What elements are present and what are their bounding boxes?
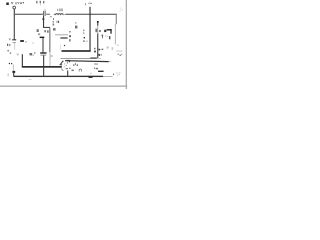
blob plate above ground rail — [12, 71, 15, 73]
label c rows right of V2 — [98, 49, 102, 56]
faint dot — [33, 42, 34, 44]
component bracket vertical — [110, 29, 111, 34]
gray line E — [55, 34, 68, 35]
ground bulge on rail — [89, 76, 93, 78]
label r. marks — [94, 63, 98, 69]
wire main vertical x90 — [89, 7, 90, 51]
ground rail dark — [13, 76, 103, 77]
label u. left of C2 — [30, 53, 33, 55]
blob below rail area — [72, 70, 74, 72]
wire line D thick — [62, 50, 91, 52]
faint marks bottom left — [7, 73, 9, 76]
label +V VIN — [11, 2, 24, 5]
V2 top blob — [97, 21, 99, 23]
wire line B output mid — [65, 60, 109, 63]
two dots — [9, 63, 10, 64]
wire bus A corner up — [22, 54, 23, 67]
diagonal mark — [61, 69, 63, 71]
label blob left — [20, 40, 24, 42]
capacitor C2 top T bar — [40, 37, 45, 39]
wire C2 vertical — [43, 38, 44, 52]
label dots right of E — [69, 31, 71, 42]
wire vertical faint continuation — [49, 52, 52, 66]
junction dot on bus — [89, 13, 91, 15]
wire top bus segment 1 — [14, 14, 43, 15]
cluster near switch dots — [64, 62, 68, 67]
faint x scribble right — [116, 72, 120, 76]
label x left of C1 — [9, 38, 11, 40]
label tick above cap plate — [44, 9, 47, 10]
label 5 left of V2 — [94, 48, 95, 50]
faint label below vertical — [50, 55, 53, 57]
label plus marks — [7, 50, 11, 54]
wire stub to rail — [67, 71, 68, 76]
label n above rail — [79, 69, 81, 71]
capacitor C2 plate2 — [41, 54, 47, 57]
wire line C dark segment — [90, 58, 97, 59]
wire corner down at right end of bus — [116, 14, 117, 25]
wire from terminal down — [14, 9, 15, 17]
component bar below — [109, 36, 110, 39]
label 1 ~ above junction — [84, 3, 87, 5]
switch contact hook — [66, 60, 69, 61]
bus A horizontal thick — [22, 66, 62, 68]
capacitor C1 plate bottom gray — [13, 42, 16, 43]
inductor L bumps — [56, 14, 64, 15]
ground rail gray tail — [103, 76, 113, 77]
wire faint lower left — [12, 64, 15, 71]
wire blob below cap — [42, 18, 44, 20]
faint mark right of blob — [25, 41, 27, 43]
wire stub before inductor — [54, 13, 56, 16]
wire faint below C1 — [13, 43, 16, 49]
node VIN terminal square dot — [6, 3, 9, 6]
capacitor C1 plate top — [12, 39, 16, 40]
label m right of V2 — [102, 49, 103, 50]
wire fading vertical right — [115, 24, 116, 45]
short line above rail right — [98, 71, 104, 72]
label M 1-1 below line B — [73, 63, 78, 66]
label 100 above inductor — [57, 9, 63, 11]
label x mark — [38, 33, 40, 35]
marks near transistor base — [84, 37, 85, 38]
terminal circle VIN — [13, 6, 16, 9]
faint mark above bus A corner — [17, 53, 19, 55]
label colon dots — [83, 30, 84, 32]
wire V2 vertical — [97, 21, 98, 26]
faint ground triangle — [90, 73, 92, 75]
faint vertical to line D — [59, 44, 62, 50]
component bracket horizontal — [107, 29, 112, 30]
border frame bottom — [0, 86, 127, 87]
wire top bus segment 3 — [66, 14, 117, 15]
capacitor C in series on bus: plate left — [42, 11, 45, 16]
label above capacitor (111) — [36, 1, 44, 5]
wire below series cap down — [43, 16, 44, 28]
border frame right — [126, 0, 127, 89]
wire line C gray feedback — [61, 57, 91, 60]
label xy marks top right — [118, 54, 123, 56]
wire faint link inductor to bus — [63, 13, 65, 16]
wire line C faint extension — [97, 57, 101, 60]
faint mark above bottom border — [29, 78, 32, 81]
node dot below bus — [50, 16, 51, 17]
wire vertical down to bus A — [48, 28, 51, 53]
switch lever — [60, 62, 63, 65]
wire corner to right — [43, 27, 50, 28]
dot above line D — [64, 45, 65, 46]
labels around V2 — [95, 29, 108, 39]
label VE below left — [7, 44, 11, 47]
label cluster under cap — [37, 29, 49, 33]
capacitor C2 plate1 — [40, 52, 46, 53]
wire bus segment 2 after cap — [46, 14, 50, 15]
faint gray marks right — [107, 47, 109, 49]
label dot A — [56, 21, 59, 23]
wire from VIN down to input cap — [14, 17, 15, 40]
small dash left of scribble — [113, 74, 114, 76]
capacitor C in series on bus: plate right — [44, 11, 47, 16]
faint dots — [69, 68, 70, 69]
wire to ground rail — [13, 73, 14, 76]
resistor zigzag column — [53, 18, 55, 26]
label u blob — [104, 30, 106, 32]
label a2 right — [74, 22, 77, 24]
faint marks above right corner — [120, 8, 123, 12]
small dashes right of diagonal — [66, 68, 68, 69]
wire line B gray tail — [109, 60, 111, 63]
dot above bus A end — [61, 64, 62, 65]
wire C2 down through bus A to rail — [43, 56, 44, 76]
label marks left of E — [53, 28, 56, 31]
dash F — [60, 37, 67, 38]
